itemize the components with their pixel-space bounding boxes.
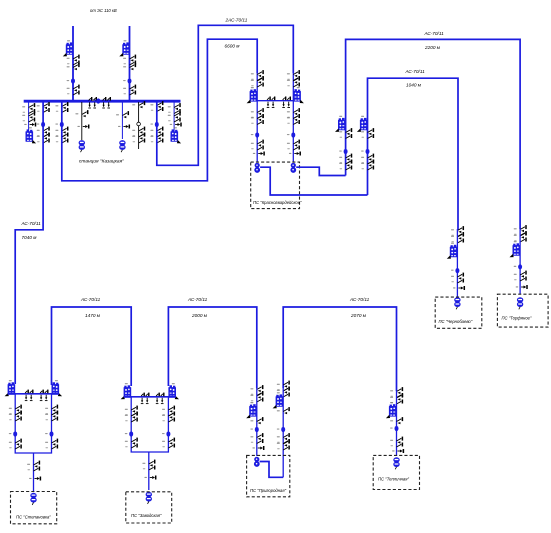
PS3 left disconnector low — [250, 433, 262, 443]
disconnector on riser 2 — [123, 55, 135, 71]
wire: riser 1 incoming 110kV — [72, 26, 74, 101]
feeder F2 disconnector upper — [37, 102, 49, 112]
PS3 right disconnectors upper — [277, 381, 289, 397]
tower A breaker block — [335, 116, 346, 132]
PSK left arrester — [253, 152, 264, 156]
PS1 right block — [52, 380, 63, 396]
svg-text:1470 м: 1470 м — [85, 313, 101, 318]
PS2 coupler 1 — [141, 393, 149, 404]
PSK right disconnectors mid — [287, 108, 299, 124]
feeder F8 disconnectors — [168, 103, 180, 122]
feeder F5 wire — [121, 102, 123, 139]
PS3 link wire — [260, 462, 284, 478]
PS5 arrester — [453, 286, 464, 290]
svg-text:6600 м: 6600 м — [225, 44, 241, 49]
PSK dashed box — [251, 162, 300, 209]
svg-text:2000 м: 2000 м — [191, 313, 208, 318]
wire: line AC-70/11 2070m PS3 to PS4 — [283, 307, 396, 391]
tower B disconnector — [361, 128, 373, 138]
PS5 breaker dot — [451, 268, 459, 273]
feeder F1 arrester — [24, 123, 35, 127]
feeder F6 disconnector upper — [132, 101, 144, 108]
PS4 disconnector mid — [390, 417, 402, 424]
PS2 loop wire — [131, 397, 168, 452]
PS5 transformer — [454, 297, 460, 309]
svg-text:станция "Казацкая": станция "Казацкая" — [79, 159, 124, 165]
PS3 left breaker block — [246, 402, 257, 418]
wire: PSK left Tx to tap tower B — [260, 167, 367, 195]
PS1 right disconnectors — [45, 405, 57, 421]
PS3 left disconnectors upper — [250, 385, 262, 402]
PS1 bus wire — [8, 393, 60, 395]
PS2 right breaker dot — [162, 431, 170, 436]
svg-text:ПС "Пригородная": ПС "Пригородная" — [250, 488, 287, 493]
PS4 arrester — [392, 449, 403, 453]
PS1 dashed box — [11, 492, 57, 524]
PS4 transformer — [393, 457, 399, 469]
bus tie breaker dot — [92, 98, 100, 103]
busbar 10kV station A — [24, 100, 181, 103]
wire: line 2AC-70/11 from F7 to PSK right column — [157, 25, 293, 165]
feeder F6 disconnectors lower — [132, 127, 144, 143]
PS1 left breaker dot — [9, 431, 17, 436]
PS1 center drop wire — [33, 453, 35, 491]
PSK right column wire — [292, 73, 294, 162]
tower A disconnector — [339, 128, 351, 138]
wire: line 6600m from F3 to PSK left column — [62, 39, 257, 181]
PS2 right disconnectors — [162, 406, 174, 422]
PSK tie bus wire — [257, 100, 293, 102]
tower B breaker block — [357, 116, 368, 132]
PSK left disconnector low — [251, 140, 263, 150]
tower B disconnectors lower — [361, 154, 373, 170]
PS4 wire — [396, 391, 398, 456]
PS2 dashed box — [126, 492, 172, 523]
feeder F5 arrester — [118, 125, 129, 129]
feeder F1 breaker block — [26, 127, 37, 143]
wire: line AC-70/11 1470m PS1 to PS2 — [52, 307, 132, 386]
PS6 wire — [519, 229, 521, 294]
feeder F3 disconnectors lower — [55, 127, 67, 143]
feeder F5 disconnector — [116, 111, 128, 118]
svg-text:АС-70/11: АС-70/11 — [349, 297, 370, 302]
PS3 left breaker dot — [250, 427, 258, 432]
wire: line AC-70/11 1040m tower B to PS5 — [368, 78, 459, 230]
PS1 left column wire — [15, 394, 51, 453]
PS3 left arrester — [252, 446, 263, 450]
PS1 center disconnector — [27, 461, 39, 471]
PS4 dashed box — [373, 455, 419, 489]
svg-text:1040 м: 1040 м — [406, 83, 422, 88]
feeder F2 breaker dot — [37, 122, 45, 127]
PSK right disconnector low — [287, 140, 299, 150]
svg-text:ПС "Красногвардейское": ПС "Красногвардейское" — [253, 200, 302, 205]
PS3 left wire — [256, 388, 258, 456]
PSK left column wire — [256, 73, 258, 162]
PS6 feeder disconnectors — [514, 225, 526, 242]
svg-text:ПС "Заводская": ПС "Заводская" — [131, 513, 162, 518]
PS6 dashed box — [497, 294, 548, 327]
svg-text:2АС-70/11: 2АС-70/11 — [225, 18, 248, 23]
PS2 left breaker dot — [125, 431, 133, 436]
svg-text:АС-70/11: АС-70/11 — [21, 221, 42, 226]
PS1 right breaker dot — [45, 431, 53, 436]
svg-text:АС-70/11: АС-70/11 — [80, 297, 101, 302]
wire: line AC-70/11 7040m from F2 to PS1 — [15, 102, 43, 384]
PS1 center arrester — [29, 477, 40, 481]
svg-text:ПС "Чернобаево": ПС "Чернобаево" — [439, 319, 473, 324]
PSK left transformer — [254, 163, 260, 173]
feeder F2 disconnectors lower — [37, 127, 49, 143]
PS2 left disconnector low — [125, 438, 137, 448]
bus coupler group 1 — [88, 97, 96, 108]
PS1 right disconnector low — [45, 439, 57, 449]
PS6 breaker block — [509, 241, 520, 257]
svg-text:2200 м: 2200 м — [424, 45, 441, 50]
breaker dot riser 2 — [123, 78, 131, 83]
PS2 left block — [121, 383, 132, 399]
PS4 disconnector low — [390, 437, 402, 447]
PS1 coupler 1 — [25, 390, 33, 401]
PS1 transformer — [30, 493, 36, 505]
svg-text:ПС "Степановка": ПС "Степановка" — [16, 515, 51, 520]
svg-text:АС-70/11: АС-70/11 — [424, 31, 445, 36]
tower B breaker dot — [361, 149, 369, 154]
PS3 right disconnector mid — [277, 407, 289, 414]
PSK right arrester — [289, 152, 300, 156]
feeder F7 disconnector upper — [150, 101, 162, 111]
PS1 left block — [5, 380, 16, 396]
PS6 arrester — [516, 285, 527, 289]
PSK left disconnectors mid — [251, 108, 263, 124]
PS3 right wire — [282, 388, 284, 477]
disconnector lower riser 2 — [123, 85, 135, 95]
PS2 transformer — [146, 492, 152, 504]
wire: riser 2 incoming 110kV — [129, 26, 131, 101]
feeder F4 arrester — [77, 125, 88, 129]
tower A disconnectors lower — [339, 154, 351, 170]
feeder F3 disconnector upper — [55, 102, 67, 112]
tower A breaker dot — [339, 149, 347, 154]
feeder F8 arrester — [170, 123, 181, 127]
disconnector lower riser 1 — [67, 85, 79, 95]
PS2 right disconnector low — [162, 438, 174, 448]
feeder F1 disconnectors — [22, 103, 34, 122]
bus coupler group 2 — [102, 97, 110, 108]
PS2 bus wire — [124, 396, 176, 398]
PS2 right block — [168, 383, 179, 399]
feeder F8 breaker block — [171, 127, 182, 143]
breaker block on riser 1 — [63, 40, 74, 56]
svg-text:АС-70/11: АС-70/11 — [405, 69, 426, 74]
PSK left disconnectors upper — [251, 70, 263, 87]
disconnector on riser 1 — [67, 55, 79, 71]
feeder F4 transformer — [79, 140, 85, 152]
PSK tie coupler 2 — [282, 97, 290, 108]
PS5 dashed box — [435, 297, 482, 328]
svg-text:АС-70/11: АС-70/11 — [187, 297, 208, 302]
PSK right transformer — [290, 163, 296, 173]
PS3 dashed box — [247, 455, 290, 496]
feeder F5 transformer — [119, 140, 125, 152]
svg-text:от ЭС 110 кВ: от ЭС 110 кВ — [90, 8, 117, 13]
feeder F1 wire — [28, 102, 30, 131]
PS3 right breaker block — [273, 392, 284, 408]
PS3 left disconnector mid — [250, 417, 262, 424]
feeder F7 disconnectors lower — [150, 127, 162, 143]
PSK right disconnectors upper — [287, 70, 299, 87]
PSK left breaker block — [247, 87, 258, 103]
PS2 center drop wire — [148, 452, 150, 490]
PS4 feeder disconnectors — [390, 387, 402, 404]
PS5 wire — [456, 229, 458, 297]
PS6 breaker dot — [514, 264, 522, 269]
PS2 coupler 2 — [156, 393, 164, 404]
svg-text:7040 м: 7040 м — [22, 235, 38, 240]
PS3 right breaker dot — [277, 427, 285, 432]
PS2 center arrester — [144, 476, 155, 480]
feeder F8 wire — [173, 102, 175, 131]
feeder F6 wire — [138, 102, 140, 149]
PS5 disconnector low — [451, 273, 463, 283]
svg-text:2070 м: 2070 м — [350, 313, 367, 318]
PS6 disconnector low — [514, 271, 526, 281]
PS1 left disconnectors — [9, 405, 21, 421]
PS2 left disconnectors — [125, 406, 137, 422]
PSK right breaker block — [293, 87, 304, 103]
PS1 coupler 2 — [40, 390, 48, 401]
feeder F4 disconnector — [75, 110, 87, 117]
PS3 transformer — [254, 457, 260, 467]
PSK right breaker dot — [287, 132, 295, 137]
PS5 breaker block — [447, 243, 458, 259]
svg-text:ПС "Торфяное": ПС "Торфяное" — [502, 316, 532, 321]
PS6 transformer — [517, 297, 523, 309]
PS2 center disconnector — [142, 460, 154, 470]
svg-text:ПС "Тепличная": ПС "Тепличная" — [378, 477, 409, 482]
PS3 right disconnectors low — [277, 433, 289, 450]
feeder F7 breaker dot — [150, 122, 158, 127]
feeder F3 breaker dot — [55, 122, 63, 127]
wire: line AC-70/11 2200m tower A to PS6 — [346, 39, 520, 229]
PSK left breaker dot — [251, 132, 259, 137]
PSK tie coupler 1 — [267, 97, 275, 108]
wire: PSK right Tx to tap tower A — [296, 167, 345, 175]
PS4 breaker block — [386, 402, 397, 418]
feeder F4 wire — [81, 102, 83, 140]
PS5 feeder disconnectors — [451, 226, 463, 243]
PS4 breaker dot — [390, 426, 398, 431]
PS1 left disconnector low — [9, 439, 21, 449]
wire: line AC-70/11 2000m PS2 to PS3 — [168, 307, 256, 388]
breaker dot riser 1 — [67, 78, 75, 83]
feeder F6 switch circle — [137, 122, 141, 126]
breaker block on riser 2 — [119, 40, 130, 56]
